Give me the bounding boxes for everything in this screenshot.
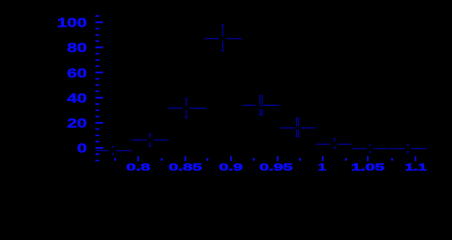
data point P7 bin 1.05 : vertical error bar with serifs bbox=[369, 145, 371, 153]
y-axis minor tick marks bbox=[95, 16, 99, 161]
data point P4 bin 0.93 : vertical error bar with serifs bbox=[259, 96, 263, 116]
data point P5 bin 0.97 : horizontal error bar bbox=[280, 127, 316, 129]
svg-text:80: 80 bbox=[67, 41, 87, 55]
svg-text:0.85: 0.85 bbox=[169, 161, 203, 172]
svg-text:0.9: 0.9 bbox=[219, 161, 243, 172]
data point P0 bin 0.77 : horizontal error bar bbox=[95, 150, 131, 152]
svg-text:100: 100 bbox=[57, 16, 87, 30]
data point P2 bin 0.85 : vertical error bar with serifs bbox=[185, 99, 188, 118]
y-axis numeric labels 100..0 bbox=[57, 16, 87, 156]
x-axis numeric labels 0.8..1.1 bbox=[126, 161, 426, 173]
data point P0 bin 0.77 : vertical error bar with serifs bbox=[112, 147, 114, 155]
svg-text:20: 20 bbox=[67, 117, 87, 131]
svg-text:40: 40 bbox=[67, 92, 87, 106]
data point P8 bin 1.09 : horizontal error bar bbox=[390, 148, 427, 150]
svg-text:60: 60 bbox=[67, 67, 87, 81]
data point P1 bin 0.81 : horizontal error bar bbox=[131, 139, 168, 141]
y-axis major tick marks bbox=[95, 22, 103, 148]
data point P6 bin 1.01 : vertical error bar with serifs bbox=[333, 139, 336, 149]
data point P7 bin 1.05 : horizontal error bar bbox=[352, 148, 389, 150]
data point P8 bin 1.09 : vertical error bar with serifs bbox=[407, 145, 409, 153]
data point P6 bin 1.01 : horizontal error bar bbox=[316, 143, 351, 145]
svg-text:1.05: 1.05 bbox=[351, 161, 385, 172]
data point P2 bin 0.85 : horizontal error bar bbox=[168, 107, 206, 109]
svg-text:0.8: 0.8 bbox=[126, 161, 150, 172]
x-axis major tick marks bbox=[138, 156, 415, 161]
svg-text:1.1: 1.1 bbox=[405, 162, 427, 173]
svg-text:0.95: 0.95 bbox=[259, 161, 293, 172]
data point P3 bin 0.89 : vertical error bar with serifs bbox=[221, 25, 224, 51]
data point P1 bin 0.81 : vertical error bar with serifs bbox=[149, 134, 152, 147]
data point P5 bin 0.97 : vertical error bar with serifs bbox=[295, 118, 299, 137]
x-axis minor tick marks bbox=[115, 158, 392, 161]
data point P3 bin 0.89 : horizontal error bar bbox=[205, 38, 242, 40]
svg-text:0: 0 bbox=[77, 142, 87, 156]
data point P4 bin 0.93 : horizontal error bar bbox=[243, 104, 279, 106]
svg-text:1: 1 bbox=[318, 162, 326, 173]
